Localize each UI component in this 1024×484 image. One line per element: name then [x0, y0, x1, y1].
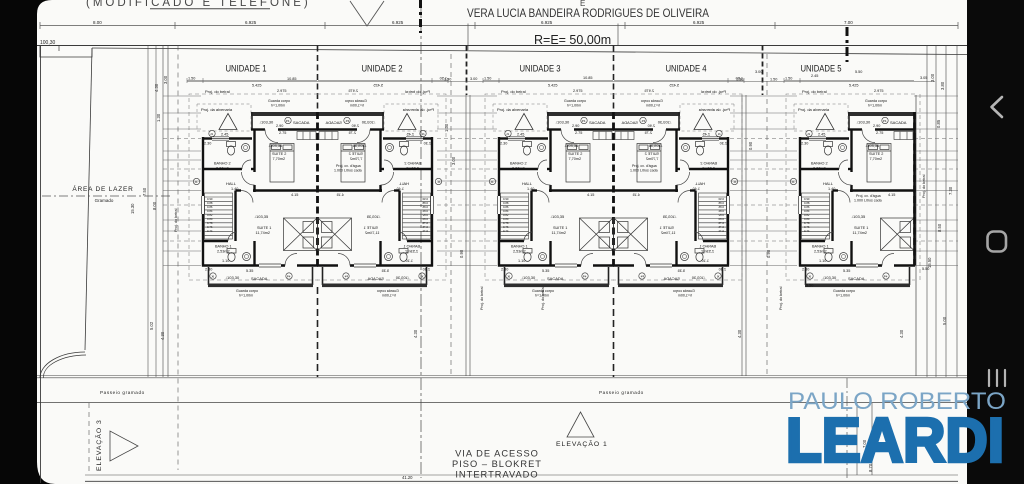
svg-text:Gramado: Gramado: [95, 198, 114, 203]
svg-text:1.50: 1.50: [444, 78, 451, 82]
svg-text:5.50: 5.50: [855, 70, 862, 74]
underline of cut-off title: [150, 8, 270, 10]
svg-text:1.000 Litros cada: 1.000 Litros cada: [630, 169, 658, 173]
svg-text:8.00: 8.00: [93, 20, 102, 25]
svg-text:7.30: 7.30: [948, 186, 953, 195]
svg-text:5.02: 5.02: [149, 321, 154, 330]
gap dashed column B-C: [762, 46, 764, 96]
svg-text:10.85: 10.85: [287, 77, 297, 81]
svg-text:1.50: 1.50: [770, 78, 777, 82]
site boundary upper line: [37, 45, 967, 47]
svg-text:2.45: 2.45: [811, 74, 818, 78]
cut-off title text at top edge: [86, 0, 311, 9]
block C east edge extension x916: [915, 95, 917, 376]
svg-text:ELEVAÇÃO 3: ELEVAÇÃO 3: [94, 419, 103, 471]
dashed line x451: [450, 54, 452, 377]
svg-text:PISO – BLOKRET: PISO – BLOKRET: [452, 459, 542, 469]
svg-text:Proj. cx. d'água: Proj. cx. d'água: [336, 164, 361, 168]
road edge double lines bottom: [85, 474, 958, 476]
unidade 5 beiral east dashed edge: [919, 94, 921, 280]
gap dashed column A-B: [466, 46, 468, 96]
caixa d'agua label block A: [334, 164, 362, 173]
boundary step notch: [40, 46, 92, 58]
svg-text:1.30: 1.30: [444, 123, 449, 132]
block total dimension labels: [287, 76, 593, 81]
svg-text:Proj. cx. d'água: Proj. cx. d'água: [856, 194, 881, 198]
dimension labels 6.925 row: [93, 20, 853, 25]
lazer area rounded corner: [40, 352, 85, 378]
svg-text:6.925: 6.925: [245, 20, 257, 25]
svg-text:8.00: 8.00: [152, 201, 157, 210]
svg-text:1.000 Litros cada: 1.000 Litros cada: [334, 169, 362, 173]
passeio strip upper double line: [37, 375, 967, 377]
svg-text:LEARDI: LEARDI: [786, 407, 1004, 476]
svg-text:ELEVAÇÃO 1: ELEVAÇÃO 1: [556, 439, 608, 448]
svg-text:5.50: 5.50: [922, 267, 929, 271]
svg-text:3.05: 3.05: [920, 76, 927, 80]
caixa d'agua label block B: [630, 164, 658, 173]
VIA DE ACESSO caption: [452, 449, 542, 480]
lazer area dash-dot line: [42, 195, 170, 197]
witness ladder right margin: [914, 96, 958, 266]
sidebar chevron back icon: [992, 97, 1003, 117]
svg-text:5.50: 5.50: [806, 284, 813, 288]
svg-text:Proj. do beiral: Proj. do beiral: [480, 286, 484, 310]
svg-text:R=E= 50,00m: R=E= 50,00m: [534, 33, 611, 47]
svg-text:1.000 Litros cada: 1.000 Litros cada: [854, 199, 882, 203]
svg-text:7.50: 7.50: [142, 187, 147, 196]
svg-text:15.30: 15.30: [130, 203, 135, 214]
svg-text:UNIDADE 4: UNIDADE 4: [666, 64, 707, 75]
svg-text:6.925: 6.925: [541, 20, 553, 25]
unidade 2 floor plan (mirrored): [317, 77, 448, 298]
svg-text:3.00: 3.00: [755, 70, 762, 74]
svg-text:UNIDADE 5: UNIDADE 5: [801, 64, 842, 75]
svg-text:5.00: 5.00: [942, 316, 947, 325]
caixa d'agua label unit 5: [854, 194, 882, 203]
svg-text:1.30: 1.30: [156, 113, 161, 122]
vertical dimension line x156: [155, 46, 157, 378]
party wall extension x317 below blocks: [317, 287, 319, 377]
sidebar recents (three bars) icon: [989, 370, 1005, 386]
party wall centerline above block A: [317, 46, 319, 113]
witness ladder left margin: [163, 96, 201, 266]
svg-text:VIA DE ACESSO: VIA DE ACESSO: [455, 449, 539, 459]
party wall centerline above block B: [613, 46, 615, 113]
svg-text:3.00: 3.00: [930, 73, 935, 82]
site boundary second line: [92, 48, 967, 55]
heavy match line mark x847: [846, 27, 849, 62]
elevation V marker top: [350, 1, 384, 26]
svg-text:Proj. do beiral: Proj. do beiral: [922, 174, 926, 198]
svg-text:Passeio gramado: Passeio gramado: [599, 390, 644, 395]
ELEVACAO 1 triangle: [567, 412, 594, 437]
svg-text:0.85: 0.85: [936, 119, 941, 128]
UNIDADE labels: [226, 64, 842, 75]
passeio strip lower line: [37, 402, 967, 404]
unidade 3 floor plan: [483, 77, 614, 298]
svg-text:41.20: 41.20: [402, 475, 413, 480]
svg-text:4.30: 4.30: [160, 331, 165, 340]
unidade 5 east outer wall solid: [913, 112, 916, 266]
svg-text:0.90: 0.90: [459, 249, 464, 258]
rotated dimension labels: [130, 73, 953, 472]
svg-text:3.00: 3.00: [451, 156, 456, 165]
sidebar home (rounded square) icon: [988, 232, 1007, 252]
svg-text:(MODIFICADO E TELEFONE): (MODIFICADO E TELEFONE): [86, 0, 311, 9]
vertical dimension line x148: [147, 46, 149, 378]
svg-text:10.85: 10.85: [583, 76, 593, 80]
double witness lines x466 x470: [465, 95, 467, 376]
svg-text:UNIDADE 2: UNIDADE 2: [362, 64, 403, 75]
unidade 1 floor plan: [187, 77, 318, 298]
party wall extension x613 below blocks: [613, 287, 615, 377]
site west boundary line: [40, 46, 42, 484]
svg-text:7.00: 7.00: [844, 20, 853, 25]
svg-text:3.00: 3.00: [470, 77, 477, 81]
svg-text:Proj. do beiral: Proj. do beiral: [779, 286, 783, 310]
svg-text:1.50: 1.50: [736, 78, 743, 82]
svg-text:Passeio gramado: Passeio gramado: [100, 390, 145, 395]
unidade 4 floor plan (mirrored): [613, 77, 744, 298]
right black sidebar: [967, 0, 1024, 484]
svg-text:6.925: 6.925: [392, 20, 404, 25]
vertical dimension line x168: [167, 46, 169, 378]
right margin verticals: [926, 46, 928, 378]
svg-text:4.30: 4.30: [154, 83, 159, 92]
dash-dot line x847 lower: [846, 378, 848, 478]
dashed line x89 lower: [88, 403, 90, 475]
witness ladder gap A-B: [437, 96, 497, 266]
svg-text:0.90: 0.90: [766, 249, 771, 258]
top dimension line: [40, 25, 958, 27]
svg-text:ÁREA DE LAZER: ÁREA DE LAZER: [72, 184, 133, 193]
svg-text:3.80: 3.80: [940, 81, 945, 90]
dashed projection line x178: [177, 46, 179, 471]
svg-text:4.30: 4.30: [413, 329, 418, 338]
property centerline x421 dash-dot: [420, 0, 422, 478]
witness line x746: [745, 95, 747, 376]
ELEVACAO 3 triangle: [110, 431, 138, 461]
dashed line x767: [766, 54, 768, 377]
svg-text:UNIDADE 1: UNIDADE 1: [226, 64, 267, 75]
svg-text:3.00: 3.00: [163, 75, 168, 84]
svg-text:6.925: 6.925: [693, 20, 705, 25]
svg-text:Proj. cx. d'água: Proj. cx. d'água: [632, 164, 657, 168]
heavy match line mark x420 top: [419, 0, 422, 33]
svg-text:100,30: 100,30: [40, 40, 56, 46]
svg-text:4.30: 4.30: [737, 329, 742, 338]
svg-text:VERA LUCIA BANDEIRA RODRIGUES: VERA LUCIA BANDEIRA RODRIGUES DE OLIVEIR…: [467, 8, 709, 20]
svg-text:Proj. do beiral: Proj. do beiral: [174, 208, 178, 232]
inter-block dimension labels: [444, 70, 929, 288]
svg-text:8.50: 8.50: [937, 223, 942, 232]
lower verticals near x857: [856, 403, 858, 475]
rotated proj do beiral labels: [174, 174, 926, 310]
svg-text:E: E: [580, 0, 585, 8]
witness ladder gap B-C: [730, 96, 797, 266]
vertical dimension line x163: [162, 46, 164, 378]
svg-text:UNIDADE 3: UNIDADE 3: [520, 64, 561, 75]
block dimension baseline full width: [187, 80, 935, 82]
svg-text:INTERTRAVADO: INTERTRAVADO: [455, 470, 538, 480]
svg-text:0.90: 0.90: [748, 141, 753, 150]
unidade 5 floor plan: [784, 77, 915, 298]
lazer area east line: [85, 48, 92, 350]
svg-text:4.30: 4.30: [899, 329, 904, 338]
